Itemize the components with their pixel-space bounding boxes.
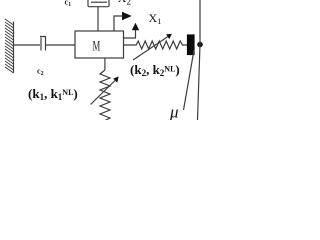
wire damper c2 to mass xyxy=(46,44,76,46)
wall line (right) xyxy=(198,0,201,120)
svg-text:X1: X1 xyxy=(149,11,162,26)
rod mass to spring k1 xyxy=(104,58,106,70)
svg-text:(k1, k1NL): (k1, k1NL) xyxy=(28,86,78,102)
nonlinear arrow through spring k2 xyxy=(133,34,172,60)
svg-text:μ: μ xyxy=(169,103,179,121)
wall (left, hatched) xyxy=(5,19,14,73)
spring k2 (horizontal, to friction block) xyxy=(124,41,188,49)
arrow up (bent arrow from mass right edge) xyxy=(124,23,140,38)
damper c1 (top, cut off at image edge) xyxy=(88,0,109,7)
svg-text:(k2, k2NL): (k2, k2NL) xyxy=(130,62,180,78)
svg-text:M: M xyxy=(93,37,101,54)
contact dot xyxy=(197,42,203,48)
wire wall to damper c2 xyxy=(14,44,41,46)
arrow X1 (bent arrow pointing right) xyxy=(114,12,132,31)
svg-text:c1: c1 xyxy=(65,0,72,8)
rod damper c1 to mass xyxy=(97,7,99,31)
spring k1 (vertical, cut off at bottom edge) xyxy=(100,70,110,121)
mass M (box) xyxy=(75,31,124,58)
friction block (solid) xyxy=(188,35,195,55)
svg-text:X2: X2 xyxy=(118,0,131,6)
damper c2 xyxy=(40,37,46,51)
leader line to mu xyxy=(184,50,195,110)
svg-text:c2: c2 xyxy=(37,67,44,78)
nonlinear arrow through spring k1 xyxy=(91,76,119,104)
